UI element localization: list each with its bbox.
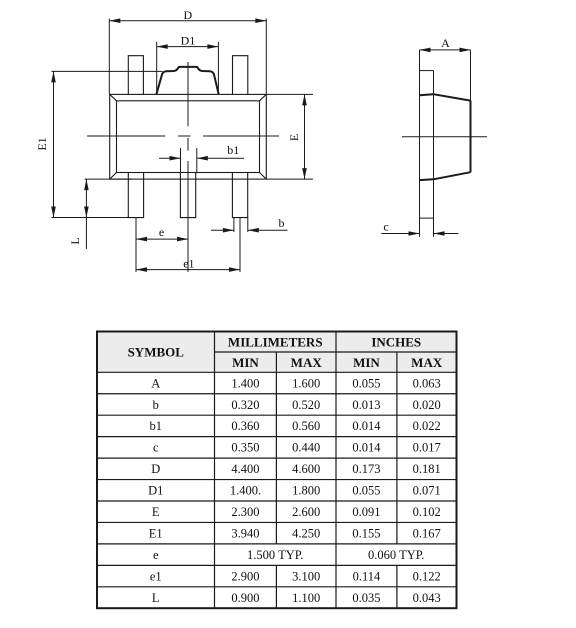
svg-text:D1: D1 (181, 34, 196, 48)
svg-text:E: E (287, 134, 301, 141)
svg-text:D1: D1 (148, 484, 163, 498)
svg-text:1.400.: 1.400. (230, 484, 261, 498)
svg-text:0.114: 0.114 (353, 569, 381, 583)
svg-text:0.350: 0.350 (231, 441, 259, 455)
svg-text:0.014: 0.014 (352, 441, 381, 455)
svg-text:0.055: 0.055 (352, 376, 380, 390)
svg-text:e: e (153, 548, 159, 562)
svg-text:0.071: 0.071 (413, 484, 441, 498)
svg-text:2.300: 2.300 (231, 505, 259, 519)
svg-text:E: E (152, 505, 160, 519)
svg-text:A: A (441, 36, 450, 50)
svg-text:A: A (151, 376, 160, 390)
svg-text:0.060 TYP.: 0.060 TYP. (368, 548, 424, 562)
svg-text:0.155: 0.155 (352, 527, 380, 541)
svg-text:1.100: 1.100 (292, 591, 320, 605)
svg-text:0.017: 0.017 (413, 441, 441, 455)
svg-text:0.360: 0.360 (231, 419, 259, 433)
svg-text:0.020: 0.020 (413, 398, 441, 412)
svg-text:4.400: 4.400 (231, 462, 259, 476)
svg-text:0.014: 0.014 (352, 419, 381, 433)
svg-text:1.800: 1.800 (292, 484, 320, 498)
svg-text:1.600: 1.600 (292, 376, 320, 390)
svg-text:1.500 TYP.: 1.500 TYP. (247, 548, 303, 562)
svg-text:0.173: 0.173 (352, 462, 380, 476)
svg-text:c: c (153, 441, 159, 455)
svg-text:MILLIMETERS: MILLIMETERS (228, 335, 323, 350)
svg-text:MAX: MAX (291, 355, 323, 370)
svg-text:1.400: 1.400 (231, 376, 259, 390)
svg-text:b: b (279, 216, 285, 230)
svg-text:2.600: 2.600 (292, 505, 320, 519)
svg-text:3.100: 3.100 (292, 569, 320, 583)
svg-text:0.520: 0.520 (292, 398, 320, 412)
svg-text:e: e (159, 225, 164, 239)
svg-text:0.900: 0.900 (231, 591, 259, 605)
svg-text:0.440: 0.440 (292, 441, 320, 455)
svg-text:3.940: 3.940 (231, 527, 259, 541)
svg-text:0.091: 0.091 (352, 505, 380, 519)
svg-text:MIN: MIN (353, 355, 380, 370)
svg-text:c: c (383, 220, 388, 234)
svg-text:0.063: 0.063 (413, 376, 441, 390)
svg-text:4.250: 4.250 (292, 527, 320, 541)
svg-text:0.013: 0.013 (352, 398, 380, 412)
svg-text:b1: b1 (150, 419, 163, 433)
svg-text:0.560: 0.560 (292, 419, 320, 433)
svg-text:0.122: 0.122 (413, 569, 441, 583)
svg-text:2.900: 2.900 (231, 569, 259, 583)
svg-text:D: D (183, 8, 192, 22)
svg-text:MAX: MAX (411, 355, 443, 370)
svg-text:0.055: 0.055 (352, 484, 380, 498)
svg-text:0.043: 0.043 (413, 591, 441, 605)
svg-text:MIN: MIN (232, 355, 259, 370)
svg-text:4.600: 4.600 (292, 462, 320, 476)
svg-text:0.181: 0.181 (413, 462, 441, 476)
svg-text:0.320: 0.320 (231, 398, 259, 412)
svg-text:SYMBOL: SYMBOL (128, 345, 185, 360)
svg-text:0.102: 0.102 (413, 505, 441, 519)
svg-text:L: L (68, 237, 82, 244)
svg-text:e1: e1 (150, 569, 162, 583)
svg-text:0.167: 0.167 (413, 527, 441, 541)
svg-text:E1: E1 (149, 527, 163, 541)
svg-text:L: L (152, 591, 160, 605)
svg-text:e1: e1 (183, 256, 194, 270)
svg-text:0.035: 0.035 (352, 591, 380, 605)
svg-text:0.022: 0.022 (413, 419, 441, 433)
svg-text:b1: b1 (227, 143, 239, 157)
svg-text:b: b (153, 398, 159, 412)
svg-text:D: D (151, 462, 160, 476)
svg-text:E1: E1 (35, 137, 49, 150)
svg-text:INCHES: INCHES (371, 335, 421, 350)
